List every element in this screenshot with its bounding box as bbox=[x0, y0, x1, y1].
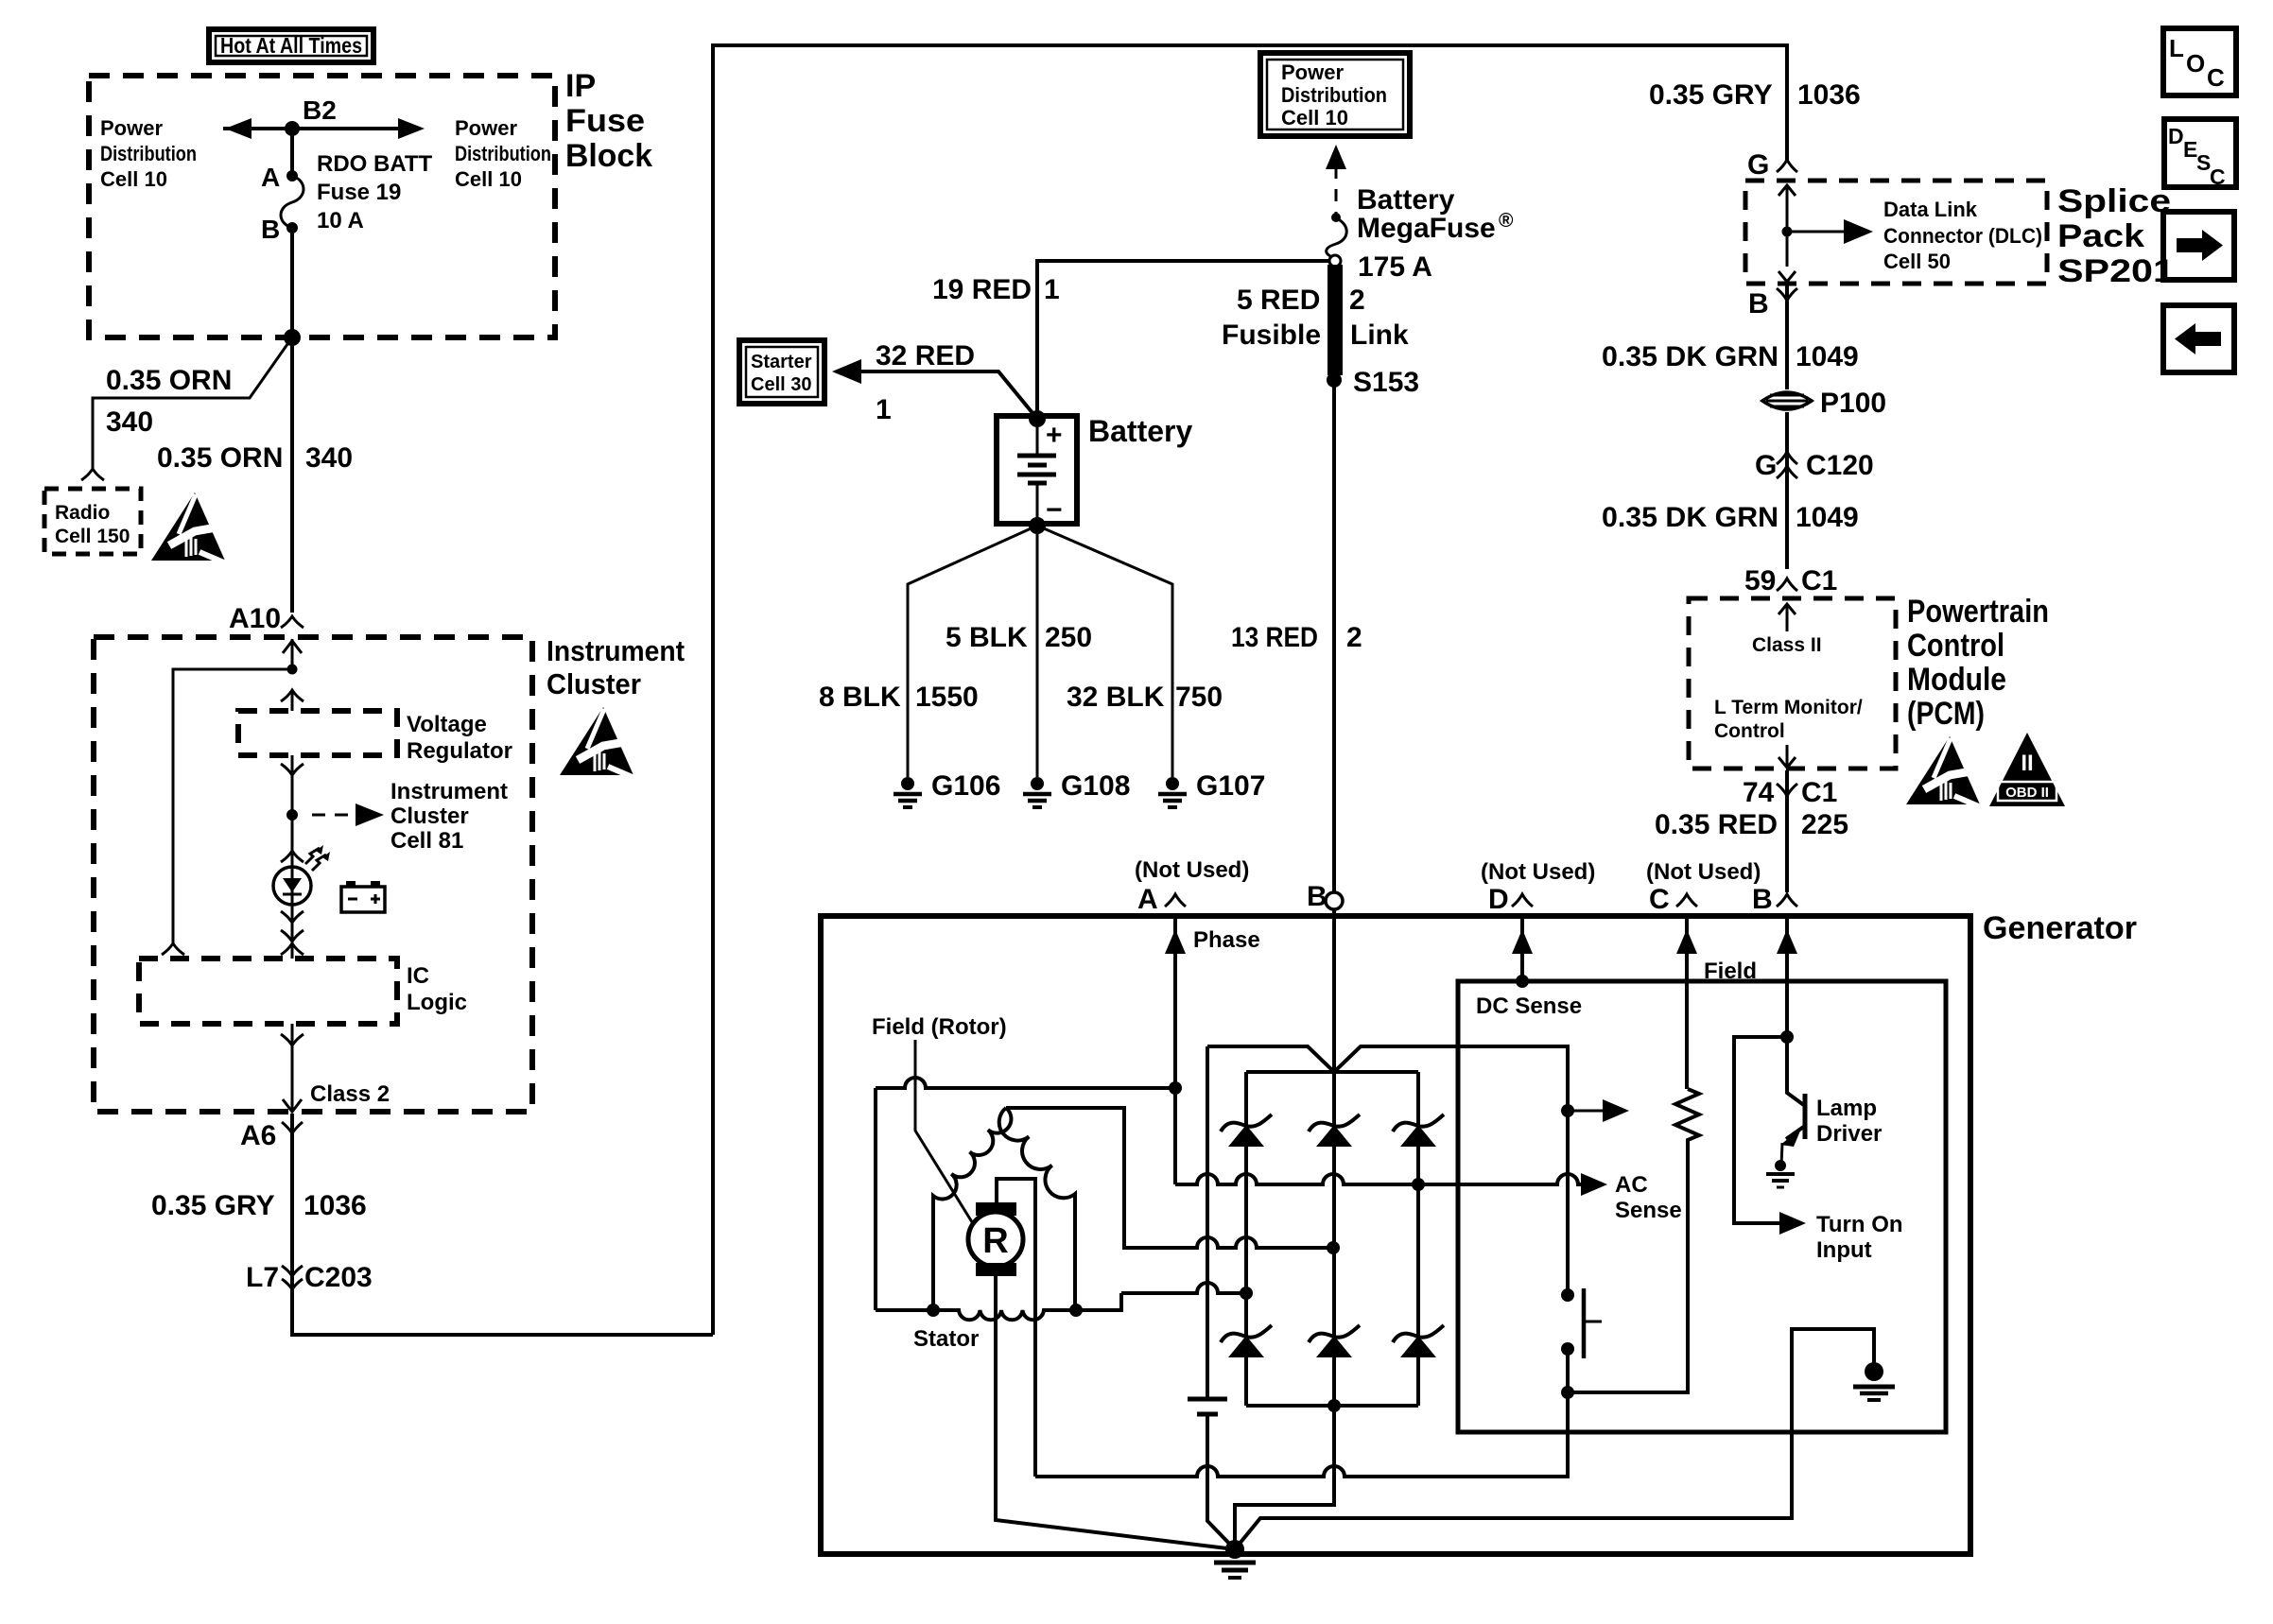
svg-text:C1: C1 bbox=[1801, 777, 1837, 808]
leader to rotor bbox=[915, 1040, 974, 1225]
svg-text:1036: 1036 bbox=[1797, 79, 1861, 111]
svg-text:59: 59 bbox=[1744, 565, 1776, 596]
svg-text:Power: Power bbox=[1281, 60, 1344, 84]
wire fuse B down to junction bbox=[290, 228, 294, 337]
diode D5 bbox=[1309, 1325, 1360, 1357]
svg-text:IC: IC bbox=[407, 963, 429, 989]
ESD symbol radio bbox=[151, 492, 226, 563]
svg-text:Block: Block bbox=[565, 138, 652, 174]
svg-text:Power: Power bbox=[455, 116, 517, 140]
ESD symbol instrument cluster bbox=[560, 707, 634, 778]
svg-text:0.35 GRY: 0.35 GRY bbox=[1649, 79, 1773, 111]
svg-text:Distribution: Distribution bbox=[100, 142, 197, 165]
svg-text:1: 1 bbox=[1044, 274, 1060, 305]
svg-text:1049: 1049 bbox=[1796, 502, 1859, 533]
svg-text:−: − bbox=[1046, 494, 1063, 526]
svg-text:Driver: Driver bbox=[1816, 1121, 1882, 1147]
turn on input loop bbox=[1734, 1037, 1787, 1223]
svg-text:Fuse: Fuse bbox=[565, 103, 645, 139]
central ground dot bbox=[1225, 1540, 1244, 1559]
svg-text:IP: IP bbox=[565, 68, 596, 104]
arrowhead left B2 bbox=[225, 118, 252, 139]
diode D2 bbox=[1309, 1114, 1360, 1147]
svg-text:Field (Rotor): Field (Rotor) bbox=[872, 1014, 1007, 1040]
fusible link bar bbox=[1327, 265, 1343, 375]
node dot resistor bottom bbox=[1561, 1386, 1574, 1399]
wire field left vertical bbox=[874, 1088, 877, 1310]
arrow B+ sense bbox=[1568, 1110, 1605, 1113]
right arrow box bbox=[2163, 212, 2234, 280]
svg-text:B: B bbox=[1748, 288, 1769, 320]
diode column right bbox=[1416, 1072, 1420, 1406]
LOC box bbox=[2163, 28, 2236, 95]
svg-text:L Term Monitor/: L Term Monitor/ bbox=[1714, 697, 1863, 718]
svg-text:C203: C203 bbox=[304, 1262, 373, 1293]
IP Fuse Block dashed box bbox=[89, 76, 555, 337]
svg-text:B: B bbox=[1307, 881, 1327, 912]
left arrow box bbox=[2163, 305, 2234, 372]
svg-text:Cell 50: Cell 50 bbox=[1883, 250, 1951, 273]
node dot B+ tap bbox=[1561, 1104, 1574, 1117]
svg-text:32 BLK: 32 BLK bbox=[1067, 682, 1165, 713]
svg-text:B: B bbox=[261, 215, 280, 244]
node dot phase A right column bbox=[1412, 1178, 1425, 1191]
bridge bottom rail bbox=[1246, 1404, 1418, 1408]
svg-text:G: G bbox=[1755, 450, 1777, 481]
connector below VR bbox=[281, 764, 304, 775]
svg-text:(Not Used): (Not Used) bbox=[1135, 857, 1249, 883]
svg-text:Regulator: Regulator bbox=[407, 738, 512, 764]
capacitor to ground bbox=[1188, 1397, 1227, 1402]
node dot field-A bbox=[1169, 1081, 1182, 1095]
node dot stator left corner bbox=[927, 1304, 940, 1317]
svg-text:Power: Power bbox=[100, 116, 163, 140]
wire B2 to fuse bbox=[290, 129, 294, 176]
svg-text:Voltage: Voltage bbox=[407, 712, 487, 737]
fuse terminal B dot bbox=[286, 222, 298, 233]
connector below LED bbox=[281, 911, 304, 923]
svg-text:G108: G108 bbox=[1061, 770, 1130, 802]
svg-text:Connector (DLC): Connector (DLC) bbox=[1883, 224, 2042, 248]
svg-text:10 A: 10 A bbox=[317, 208, 364, 233]
svg-text:DC Sense: DC Sense bbox=[1476, 993, 1582, 1019]
DESC box bbox=[2164, 119, 2236, 189]
svg-text:1: 1 bbox=[876, 394, 892, 425]
IC Logic dashed box bbox=[139, 959, 397, 1024]
wire stator left phase jog bbox=[1121, 1283, 1246, 1293]
svg-text:Control: Control bbox=[1714, 720, 1785, 742]
svg-text:Fuse 19: Fuse 19 bbox=[317, 180, 401, 205]
svg-text:Powertrain: Powertrain bbox=[1907, 594, 2049, 630]
wire 13 RED down to generator bbox=[1332, 375, 1336, 892]
lamp driver emitter ground bbox=[1775, 1160, 1786, 1171]
node dot lamp driver collector bbox=[1780, 1030, 1794, 1044]
pin C internal wire with up arrow bbox=[1685, 916, 1689, 1089]
dashed arrow Instrument Cluster Cell 81 bbox=[312, 814, 356, 817]
wire LED to IC logic bbox=[291, 905, 294, 959]
rotor brush top bbox=[976, 1202, 1016, 1216]
connector chevron left branch bbox=[162, 943, 184, 955]
arrow to DLC bbox=[1787, 231, 1848, 233]
svg-text:Hot At All Times: Hot At All Times bbox=[220, 33, 362, 58]
svg-text:2: 2 bbox=[1349, 285, 1365, 316]
rotor R bbox=[968, 1212, 1023, 1267]
wire in splice pack bbox=[1786, 185, 1789, 267]
svg-text:Cell 10: Cell 10 bbox=[100, 167, 167, 191]
arrow out of cluster bbox=[283, 1099, 302, 1112]
svg-text:D: D bbox=[2168, 124, 2184, 148]
wire below VR bbox=[291, 755, 294, 815]
pin A internal wire with up arrow bbox=[1173, 916, 1177, 1184]
svg-text:Distribution: Distribution bbox=[1281, 83, 1387, 107]
svg-text:Sense: Sense bbox=[1615, 1198, 1682, 1223]
diode D1 bbox=[1221, 1114, 1272, 1147]
wire B2 arrows bbox=[223, 127, 407, 130]
svg-text:A6: A6 bbox=[240, 1120, 276, 1151]
connector below IC logic bbox=[281, 1034, 304, 1045]
diode column left bbox=[1244, 1072, 1248, 1406]
OBD II symbol bbox=[1989, 733, 2065, 806]
svg-text:8 BLK: 8 BLK bbox=[819, 682, 901, 713]
svg-text:0.35 GRY: 0.35 GRY bbox=[151, 1190, 275, 1221]
svg-text:0.35 DK GRN: 0.35 DK GRN bbox=[1602, 341, 1778, 372]
wire regulator bottom bus bbox=[1035, 1349, 1568, 1477]
arrow into cluster bbox=[283, 641, 302, 653]
resistor bbox=[1568, 1089, 1699, 1392]
svg-text:Cell 10: Cell 10 bbox=[455, 167, 522, 191]
wire stator mid phase elbow bbox=[1006, 1108, 1333, 1248]
svg-text:B: B bbox=[1752, 884, 1773, 915]
Instrument Cluster dashed box bbox=[94, 637, 532, 1112]
wire 19 RED from battery to megafuse bbox=[1037, 261, 1329, 419]
node dot bottom rail bbox=[1327, 1399, 1341, 1412]
svg-text:Link: Link bbox=[1350, 320, 1409, 351]
svg-text:Cell 150: Cell 150 bbox=[55, 526, 130, 547]
node dot stator right corner bbox=[1069, 1304, 1083, 1317]
battery junction bottom dot bbox=[1029, 517, 1046, 534]
ESD symbol PCM bbox=[1906, 736, 1981, 807]
svg-text:G107: G107 bbox=[1196, 770, 1265, 802]
svg-text:2: 2 bbox=[1346, 622, 1362, 653]
svg-text:Splice: Splice bbox=[2057, 183, 2171, 219]
right internal ground loop bbox=[1235, 1329, 1874, 1549]
ground G106 bbox=[894, 777, 922, 807]
wire bridge to ground descender bbox=[1235, 1406, 1334, 1549]
wire phase A horizontal bbox=[1175, 1174, 1418, 1184]
svg-text:(Not Used): (Not Used) bbox=[1646, 859, 1761, 885]
wire splice to P100 bbox=[1785, 285, 1789, 389]
svg-text:Cell 30: Cell 30 bbox=[751, 374, 811, 395]
svg-text:L: L bbox=[2169, 34, 2184, 62]
transistor lamp driver bbox=[1787, 1037, 1805, 1106]
svg-text:(PCM): (PCM) bbox=[1907, 696, 1985, 732]
svg-text:B2: B2 bbox=[303, 95, 337, 125]
junction dot splice bbox=[1782, 227, 1793, 237]
stator left winding arc bbox=[933, 1108, 1011, 1310]
svg-text:1036: 1036 bbox=[304, 1190, 367, 1221]
wire below IC logic bbox=[291, 1024, 294, 1112]
svg-text:Class II: Class II bbox=[1752, 634, 1822, 656]
wire A6 down bbox=[290, 1114, 294, 1286]
svg-text:0.35 DK GRN: 0.35 DK GRN bbox=[1602, 502, 1778, 533]
Power Distribution Cell 10 box (top middle) bbox=[1260, 53, 1410, 136]
Voltage Regulator dashed box bbox=[238, 711, 397, 755]
svg-text:®: ® bbox=[1499, 210, 1514, 232]
svg-text:Cluster: Cluster bbox=[547, 667, 641, 700]
wire 32 RED to starter bbox=[856, 371, 1037, 419]
svg-text:C: C bbox=[1649, 884, 1670, 915]
svg-text:Phase: Phase bbox=[1193, 927, 1260, 953]
svg-text:C: C bbox=[2210, 164, 2226, 189]
svg-text:Turn On: Turn On bbox=[1816, 1212, 1903, 1237]
svg-text:Generator: Generator bbox=[1983, 910, 2137, 946]
svg-text:MegaFuse: MegaFuse bbox=[1357, 213, 1496, 244]
central ground symbol bbox=[1214, 1561, 1256, 1565]
node dot mid phase bbox=[1327, 1241, 1340, 1254]
switch contact bbox=[1561, 1288, 1574, 1302]
svg-text:1049: 1049 bbox=[1796, 341, 1859, 372]
stator right winding arc bbox=[999, 1108, 1075, 1310]
svg-text:Starter: Starter bbox=[751, 352, 812, 372]
ground G108 bbox=[1023, 777, 1051, 807]
svg-text:0.35 ORN: 0.35 ORN bbox=[106, 365, 232, 396]
svg-text:(Not Used): (Not Used) bbox=[1481, 859, 1595, 885]
svg-text:S153: S153 bbox=[1353, 367, 1419, 398]
junction dot cell81 bbox=[286, 809, 298, 821]
svg-text:Stator: Stator bbox=[913, 1326, 979, 1352]
wire field top horizontal bbox=[876, 1078, 1175, 1088]
junction dot on IP box edge bbox=[284, 329, 301, 346]
wire B+ tent bbox=[1207, 1046, 1568, 1295]
svg-text:Logic: Logic bbox=[407, 990, 467, 1015]
arrowhead right B2 bbox=[398, 118, 425, 139]
DC Sense box bbox=[1458, 981, 1946, 1432]
wire bottom-left return bbox=[292, 1286, 713, 1335]
node dot left phase bbox=[1240, 1287, 1253, 1300]
svg-text:0.35 RED: 0.35 RED bbox=[1655, 809, 1778, 840]
diode D4 bbox=[1221, 1325, 1272, 1357]
svg-text:Radio: Radio bbox=[55, 502, 110, 524]
svg-text:1550: 1550 bbox=[915, 682, 979, 713]
Hot At All Times box bbox=[209, 29, 373, 62]
junction dot cluster top bbox=[287, 665, 298, 675]
svg-text:D: D bbox=[1488, 884, 1509, 915]
svg-text:19 RED: 19 RED bbox=[932, 274, 1032, 305]
wire AC sense with hop bbox=[1418, 1174, 1581, 1184]
connector at radio bbox=[81, 469, 104, 480]
svg-text:Battery: Battery bbox=[1088, 414, 1192, 448]
svg-text:OBD II: OBD II bbox=[2005, 785, 2049, 801]
svg-text:Instrument: Instrument bbox=[390, 779, 508, 804]
Generator box bbox=[821, 916, 1970, 1554]
Battery MegaFuse symbol bbox=[1327, 218, 1347, 257]
svg-text:Cluster: Cluster bbox=[390, 803, 469, 829]
svg-text:C120: C120 bbox=[1806, 450, 1874, 481]
wire PCM to generator pin B bbox=[1785, 770, 1789, 892]
wire radio branch diagonal bbox=[93, 337, 292, 469]
svg-text:L7: L7 bbox=[246, 1262, 279, 1293]
svg-text:A10: A10 bbox=[229, 603, 281, 634]
wire to LED bbox=[291, 815, 294, 867]
svg-text:P100: P100 bbox=[1820, 388, 1886, 419]
Starter Cell 30 box bbox=[739, 340, 824, 404]
svg-text:74: 74 bbox=[1743, 777, 1775, 808]
svg-text:0.35 ORN: 0.35 ORN bbox=[157, 442, 283, 474]
battery bbox=[997, 416, 1077, 526]
svg-text:32 RED: 32 RED bbox=[876, 340, 975, 371]
svg-text:II: II bbox=[2021, 751, 2033, 776]
connector pair above IC logic bbox=[281, 930, 304, 955]
stator bottom winding bbox=[876, 1293, 1121, 1320]
wire main down to A10 bbox=[290, 337, 294, 613]
node dot D on DC sense box bbox=[1516, 975, 1529, 988]
wires to grounds bbox=[908, 526, 1172, 777]
diode D3 bbox=[1393, 1114, 1444, 1147]
svg-text:Cell 10: Cell 10 bbox=[1281, 106, 1348, 130]
svg-text:340: 340 bbox=[305, 442, 353, 474]
Splice Pack dashed box bbox=[1745, 181, 2047, 284]
svg-text:340: 340 bbox=[106, 406, 153, 438]
svg-text:Instrument: Instrument bbox=[547, 634, 685, 667]
wire to voltage regulator bbox=[291, 690, 294, 711]
connector below junction bbox=[281, 690, 304, 701]
svg-text:O: O bbox=[2186, 49, 2205, 78]
fuse terminal A dot bbox=[286, 170, 298, 181]
svg-text:A: A bbox=[1137, 884, 1158, 915]
diode column middle B bbox=[1332, 909, 1336, 1406]
svg-text:225: 225 bbox=[1801, 809, 1848, 840]
svg-text:Input: Input bbox=[1816, 1237, 1872, 1263]
svg-text:C: C bbox=[2207, 63, 2225, 92]
svg-text:RDO BATT: RDO BATT bbox=[317, 151, 433, 177]
svg-text:13 RED: 13 RED bbox=[1231, 622, 1318, 653]
rotor top elbow bbox=[997, 1179, 1035, 1477]
svg-text:Control: Control bbox=[1907, 628, 2004, 664]
svg-text:+: + bbox=[1046, 420, 1063, 451]
grommet P100 bbox=[1762, 392, 1812, 409]
battery junction top dot bbox=[1029, 410, 1046, 427]
svg-text:A: A bbox=[261, 163, 280, 192]
pin B field internal wire with up arrow bbox=[1785, 916, 1789, 1037]
svg-text:175 A: 175 A bbox=[1358, 251, 1432, 283]
wire left branch to IC logic bbox=[173, 669, 292, 943]
svg-text:5 BLK: 5 BLK bbox=[946, 622, 1028, 653]
svg-text:G: G bbox=[1747, 149, 1769, 181]
battery telltale icon bbox=[341, 881, 385, 912]
svg-text:Data Link: Data Link bbox=[1883, 198, 1978, 221]
wire switch line to bottom bus bbox=[1566, 1392, 1570, 1477]
svg-text:G106: G106 bbox=[931, 770, 1000, 802]
svg-text:Battery: Battery bbox=[1357, 184, 1455, 216]
svg-text:Module: Module bbox=[1907, 662, 2006, 698]
wire out of PCM bbox=[1786, 745, 1789, 768]
svg-text:Cell 81: Cell 81 bbox=[390, 828, 463, 854]
wire capacitor branch bbox=[1206, 1046, 1209, 1397]
svg-text:750: 750 bbox=[1175, 682, 1223, 713]
wire into PCM bbox=[1786, 605, 1789, 631]
svg-text:Lamp: Lamp bbox=[1816, 1096, 1877, 1121]
PCM dashed box bbox=[1689, 598, 1896, 769]
svg-text:SP201: SP201 bbox=[2057, 253, 2175, 289]
wire top horizontal bus bbox=[713, 45, 1787, 1335]
svg-text:Distribution: Distribution bbox=[455, 142, 551, 165]
diode D6 bbox=[1393, 1325, 1444, 1357]
svg-text:5 RED: 5 RED bbox=[1237, 285, 1320, 316]
wire cluster entry bbox=[291, 639, 294, 669]
dashed arrow to power distribution bbox=[1326, 145, 1346, 169]
fuse RDO BATT Fuse 19 bbox=[281, 176, 304, 228]
svg-text:AC: AC bbox=[1615, 1172, 1648, 1198]
junction B2 dot bbox=[285, 121, 300, 136]
svg-text:C1: C1 bbox=[1801, 565, 1837, 596]
splice S153 bbox=[1327, 372, 1342, 388]
pin D internal wire with up arrow bbox=[1520, 916, 1524, 981]
wire P100 to C120 bbox=[1785, 412, 1789, 569]
LED indicator lamp bbox=[273, 845, 330, 905]
svg-text:250: 250 bbox=[1045, 622, 1092, 653]
svg-text:Pack: Pack bbox=[2057, 218, 2144, 254]
right ground dot bbox=[1865, 1362, 1883, 1381]
Radio Cell 150 dashed box bbox=[44, 489, 141, 554]
svg-text:Fusible: Fusible bbox=[1222, 320, 1321, 351]
ground G107 bbox=[1158, 777, 1187, 807]
svg-text:Class 2: Class 2 bbox=[310, 1081, 390, 1107]
svg-text:R: R bbox=[982, 1221, 1008, 1261]
wire rotor to ground bbox=[996, 1276, 1235, 1549]
connector above LED bbox=[281, 851, 304, 862]
rotor brush bottom bbox=[976, 1263, 1016, 1276]
bridge inner frame bbox=[1246, 1070, 1418, 1074]
